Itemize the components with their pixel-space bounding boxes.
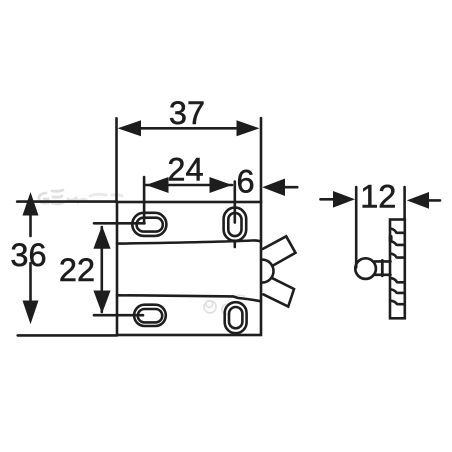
collar divider: [381, 260, 384, 275]
slot BL outer: [134, 305, 166, 326]
36 top extension line: [17, 200, 117, 203]
12 right arrow tail: [428, 199, 440, 202]
tooth 5: [392, 290, 404, 293]
roller arc: [262, 260, 274, 283]
slot TL outer: [132, 213, 166, 236]
24 left extension line: [143, 177, 146, 223]
slot TR outer: [224, 208, 247, 241]
svg-text:6: 6: [236, 164, 254, 200]
edge blob: [389, 237, 393, 241]
watermark script: [39, 190, 244, 314]
36 bottom extension line: [18, 334, 117, 337]
slot TR inner: [228, 213, 241, 236]
24 right extension line: [234, 182, 237, 223]
front view plate outline: [117, 202, 261, 335]
side view plate: [390, 220, 405, 319]
36 dimension line lower segment: [29, 263, 32, 302]
bottom divider wire: [117, 295, 261, 301]
6 arrow tail: [284, 186, 297, 189]
36 top arrowhead: [23, 192, 39, 216]
tooth 1: [391, 229, 404, 233]
svg-text:12: 12: [360, 178, 396, 214]
neck bottom: [375, 273, 391, 276]
tooth 2: [391, 241, 404, 245]
37 left arrowhead: [118, 120, 142, 136]
37 left extension (plate left edge extended up): [115, 118, 118, 202]
22 top leader wire: [94, 222, 145, 225]
22 top arrowhead: [93, 226, 110, 249]
22 bottom arrowhead: [93, 291, 110, 314]
24 dimension line: [146, 184, 232, 187]
24 right arrowhead: [210, 177, 233, 193]
slot BR outer: [225, 302, 247, 333]
22 bottom leader wire: [94, 314, 143, 317]
24 left arrowhead: [146, 177, 169, 193]
tooth 3: [391, 254, 403, 258]
svg-text:37: 37: [169, 95, 205, 131]
slot TL inner: [137, 218, 163, 232]
12 right arrowhead: [407, 192, 429, 209]
22 dimension line: [101, 227, 104, 312]
36 bottom arrowhead: [23, 301, 39, 325]
12 left arrowhead: [333, 191, 355, 208]
ball: [355, 258, 376, 279]
12 left arrow tail: [321, 198, 336, 201]
top wing: [263, 236, 296, 266]
6 arrowhead: [262, 179, 285, 197]
37 right extension (plate right edge extended up): [260, 118, 263, 202]
svg-text:24: 24: [167, 152, 203, 188]
tooth 6: [392, 301, 403, 304]
24 right extension line lower segment: [234, 241, 237, 247]
svg-text:22: 22: [59, 252, 95, 288]
neck top: [375, 260, 391, 263]
slot BR inner: [229, 307, 242, 328]
37 right arrowhead: [237, 120, 260, 136]
slot BL inner: [138, 309, 162, 322]
12 right extension line: [403, 187, 406, 220]
tooth 4: [392, 278, 404, 282]
36 dimension line upper segment: [29, 212, 32, 236]
12 left extension line: [355, 187, 358, 267]
svg-text:36: 36: [10, 237, 46, 273]
37 dimension line: [138, 127, 240, 130]
top divider wire: [117, 240, 261, 243]
bottom wing: [263, 278, 294, 307]
